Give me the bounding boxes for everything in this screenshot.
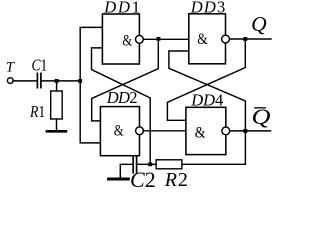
gate DD1 <box>102 14 139 64</box>
resistor R2 <box>156 160 182 169</box>
overbar of Q-bar <box>254 107 266 108</box>
capacitor C1 <box>37 73 41 87</box>
svg-text:&: & <box>122 32 132 49</box>
wire DD2 output to DD4 input 2 <box>143 130 186 132</box>
gate DD4 <box>186 107 226 154</box>
resistor R1 <box>51 91 63 119</box>
gate DD3 <box>189 14 226 64</box>
svg-text:R2: R2 <box>164 169 189 191</box>
svg-text:&: & <box>195 125 206 142</box>
svg-text:R1: R1 <box>29 102 45 121</box>
wire C1 to node B <box>42 80 80 82</box>
input terminal T <box>7 78 13 84</box>
node A <box>55 79 59 83</box>
wire C2 to ground <box>120 164 133 177</box>
wire R1 to ground <box>56 119 58 130</box>
svg-text:Q: Q <box>251 12 267 36</box>
wire R2 to node E <box>150 163 156 165</box>
wire node B to DD2 input 2 <box>80 81 100 143</box>
svg-text:C2: C2 <box>130 167 156 191</box>
output bubble DD1 <box>136 35 144 43</box>
output bubble DD3 <box>222 35 230 43</box>
wire node D to DD4 input 1 <box>167 39 245 120</box>
wire DD1 input 2 to node E (via C2/R2 junction vertical) <box>92 48 151 164</box>
wire T to C1 <box>13 80 37 82</box>
svg-text:&: & <box>197 31 208 48</box>
ground (C2) <box>109 178 129 181</box>
wire DD4 output to Q-bar <box>230 130 271 132</box>
svg-text:DD2: DD2 <box>106 88 137 107</box>
wire DD3 output to Q <box>229 38 271 40</box>
wire node A to R1 <box>56 81 58 91</box>
node C <box>157 37 161 41</box>
wire node B to DD1 input 1 <box>80 27 102 81</box>
capacitor C2 <box>133 156 136 173</box>
svg-text:&: & <box>114 123 124 140</box>
svg-text:DD4: DD4 <box>190 90 223 109</box>
ground (R1) <box>47 130 66 133</box>
node D <box>243 37 247 41</box>
svg-text:DD1: DD1 <box>103 0 142 17</box>
node B <box>78 79 82 83</box>
node F <box>243 129 247 133</box>
wire node E to C2 <box>137 163 151 165</box>
wire DD1 output to DD3 input 1 <box>143 38 189 40</box>
output bubble DD2 <box>136 127 144 135</box>
wire node C to DD2 input 1 <box>92 39 159 121</box>
wire node F to R2 <box>182 131 246 164</box>
gate DD2 <box>100 107 139 156</box>
wire DD3 input 2 to node F (Q-bar) <box>169 51 246 131</box>
svg-text:DD3: DD3 <box>190 0 227 17</box>
svg-text:C1: C1 <box>32 55 48 74</box>
svg-text:T: T <box>6 59 15 75</box>
node E <box>148 162 152 166</box>
output bubble DD4 <box>222 127 230 135</box>
